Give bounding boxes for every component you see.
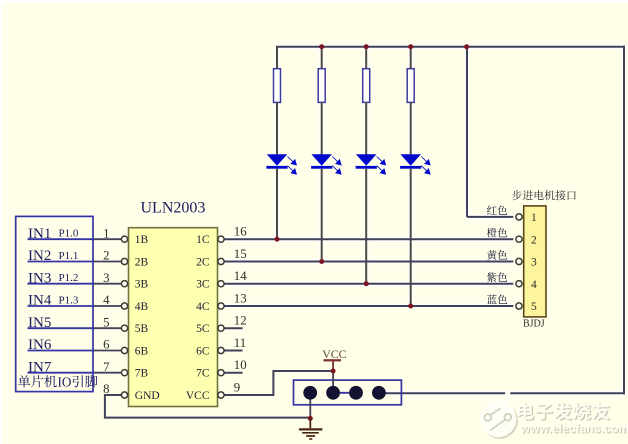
junction dot on row bbox=[319, 259, 324, 264]
svg-text:1C: 1C bbox=[196, 234, 210, 246]
svg-text:5B: 5B bbox=[135, 323, 149, 335]
junction dot ground node bbox=[308, 416, 313, 421]
pin circle right 6C bbox=[218, 347, 224, 353]
svg-text:IN3: IN3 bbox=[28, 270, 51, 286]
svg-text:13: 13 bbox=[234, 291, 247, 305]
pin circle left 4B bbox=[121, 303, 127, 309]
wire column 3 resistor to LED bbox=[365, 103, 367, 156]
svg-text:2B: 2B bbox=[135, 257, 149, 269]
svg-text:5C: 5C bbox=[196, 323, 210, 335]
junction dot on rail bbox=[319, 44, 324, 49]
svg-text:P1.2: P1.2 bbox=[59, 272, 79, 284]
wire VCC top rail bbox=[276, 46, 625, 48]
watermark 电子发烧友 bbox=[518, 402, 610, 420]
svg-text:ULN2003: ULN2003 bbox=[141, 200, 206, 217]
label 橙色 bbox=[487, 228, 507, 238]
svg-text:5: 5 bbox=[531, 301, 537, 313]
wire pin 8 to ground node bbox=[105, 395, 310, 418]
label 红色 bbox=[487, 205, 507, 215]
wire IN3 net bbox=[28, 283, 95, 285]
svg-text:5: 5 bbox=[103, 315, 109, 329]
svg-text:IN1: IN1 bbox=[28, 226, 51, 242]
wire IN5 net bbox=[28, 327, 95, 329]
resistor R3 bbox=[363, 69, 370, 103]
wire column 2 LED to row bbox=[321, 169, 323, 262]
svg-text:IN6: IN6 bbox=[28, 337, 52, 353]
wire red: rail to header pin 1 bbox=[466, 47, 468, 217]
svg-text:1: 1 bbox=[531, 212, 537, 224]
junction dot on row bbox=[408, 304, 413, 309]
svg-text:3: 3 bbox=[531, 257, 537, 269]
svg-text:10: 10 bbox=[234, 358, 247, 372]
svg-text:VCC: VCC bbox=[322, 347, 346, 361]
pin circle right 4C bbox=[218, 303, 224, 309]
svg-text:7B: 7B bbox=[135, 368, 149, 380]
wire stub pin 10 bbox=[224, 372, 242, 374]
connector J1 BJDJ body bbox=[524, 206, 546, 317]
wire IN2 net bbox=[28, 261, 95, 263]
resistor R2 bbox=[318, 69, 325, 103]
pin circle header 2 bbox=[516, 236, 522, 242]
pin circle right 1C bbox=[218, 236, 224, 242]
svg-text:VCC: VCC bbox=[186, 390, 210, 402]
LED D4 bbox=[400, 154, 431, 175]
wire column 4 LED to row bbox=[410, 169, 412, 306]
power header box bbox=[294, 380, 402, 405]
label 黄色 bbox=[487, 250, 507, 260]
pin circle left GND bbox=[121, 392, 127, 398]
pin circle right 5C bbox=[218, 325, 224, 331]
pin circle header 1 bbox=[516, 214, 522, 220]
svg-text:1B: 1B bbox=[135, 234, 149, 246]
svg-text:BJDJ: BJDJ bbox=[523, 319, 545, 330]
svg-text:IN7: IN7 bbox=[28, 359, 52, 375]
svg-text:1: 1 bbox=[103, 226, 109, 240]
LED D3 bbox=[356, 154, 387, 175]
resistor R1 bbox=[274, 69, 281, 103]
svg-text:P1.1: P1.1 bbox=[59, 250, 79, 262]
wire IN1 net bbox=[28, 238, 95, 240]
svg-text:4B: 4B bbox=[135, 301, 149, 313]
pin circle right 3C bbox=[218, 281, 224, 287]
svg-text:IN4: IN4 bbox=[28, 293, 52, 309]
pin circle left 3B bbox=[121, 281, 127, 287]
LED D2 bbox=[311, 154, 342, 175]
svg-text:IN5: IN5 bbox=[28, 315, 51, 331]
svg-text:12: 12 bbox=[234, 314, 247, 328]
svg-text:16: 16 bbox=[234, 225, 247, 239]
wire right-side VCC drop bbox=[623, 46, 625, 395]
svg-text:7C: 7C bbox=[196, 368, 210, 380]
wire column 1 resistor to LED bbox=[276, 103, 278, 156]
svg-text:11: 11 bbox=[234, 336, 246, 350]
wire IN7 net bbox=[28, 372, 95, 374]
junction dot on rail bbox=[364, 44, 369, 49]
svg-text:3C: 3C bbox=[196, 279, 210, 291]
pin circle left 6B bbox=[121, 347, 127, 353]
wire IC pin 14 to header pin 4 bbox=[224, 283, 513, 285]
wire bottom VCC run to header bbox=[379, 392, 625, 394]
wire IC pin 15 to header pin 3 bbox=[224, 261, 513, 263]
label 蓝色 bbox=[487, 295, 507, 305]
LED D1 bbox=[266, 154, 297, 175]
watermark 电子发烧友 shadow bbox=[519, 403, 611, 421]
svg-text:3B: 3B bbox=[135, 279, 149, 291]
op IC body U1 ULN2003 bbox=[129, 228, 218, 407]
pin circle header 3 bbox=[516, 258, 522, 264]
pin circle right 2C bbox=[218, 258, 224, 264]
wire column 3 LED to row bbox=[365, 169, 367, 284]
svg-text:14: 14 bbox=[234, 269, 247, 283]
pin circle left 2B bbox=[121, 258, 127, 264]
pin circle right VCC bbox=[218, 392, 224, 398]
svg-text:6: 6 bbox=[103, 338, 110, 352]
svg-text:2: 2 bbox=[103, 249, 109, 263]
junction dot on rail bbox=[408, 44, 413, 49]
svg-text:IO: IO bbox=[58, 374, 72, 389]
ground symbol bbox=[299, 418, 323, 439]
wire VCC node to pad2 bbox=[332, 371, 334, 393]
VCC power symbol bbox=[324, 359, 342, 361]
pin circle header 5 bbox=[516, 303, 522, 309]
svg-text:IN2: IN2 bbox=[28, 248, 51, 264]
wire IC pin 13 to header pin 5 bbox=[224, 305, 513, 307]
svg-text:GND: GND bbox=[135, 390, 160, 402]
wire pad1 to ground node bbox=[309, 393, 311, 419]
junction dot VCC node bbox=[331, 369, 336, 374]
wire IN6 net bbox=[28, 350, 95, 352]
svg-text:www.elecfans.com: www.elecfans.com bbox=[520, 422, 628, 436]
pad circle 2 bbox=[326, 386, 340, 400]
wire column 1 rail to resistor bbox=[276, 47, 278, 70]
label 单片机IO引脚 bbox=[18, 375, 57, 387]
wire IC pin 16 to header pin 2 bbox=[224, 238, 513, 240]
wire column 4 rail to resistor bbox=[410, 47, 412, 70]
wire column 4 resistor to LED bbox=[410, 103, 412, 156]
junction dot on rail bbox=[464, 44, 469, 49]
wire pin 9 to VCC node bbox=[224, 371, 332, 395]
svg-text:P1.0: P1.0 bbox=[59, 228, 79, 240]
wire column 2 resistor to LED bbox=[321, 103, 323, 156]
resistor R4 bbox=[407, 69, 414, 103]
watermark logo circle bbox=[480, 392, 518, 439]
pad circle 1 bbox=[303, 386, 317, 400]
pin circle left 1B bbox=[121, 236, 127, 242]
svg-text:2C: 2C bbox=[196, 257, 210, 269]
wire halos bbox=[224, 47, 624, 394]
pin circle right 7C bbox=[218, 370, 224, 376]
svg-text:2: 2 bbox=[531, 234, 537, 246]
svg-text:P1.3: P1.3 bbox=[59, 294, 79, 306]
svg-text:4C: 4C bbox=[196, 301, 210, 313]
svg-text:6B: 6B bbox=[135, 346, 149, 358]
svg-text:7: 7 bbox=[103, 360, 110, 374]
label 紫色 bbox=[487, 272, 507, 282]
pad circle 3 bbox=[349, 386, 363, 400]
wire stub pin 12 bbox=[224, 327, 242, 329]
wire stub pin 11 bbox=[224, 350, 242, 352]
pin circle left 7B bbox=[121, 370, 127, 376]
junction dot on row bbox=[275, 237, 280, 242]
svg-text:4: 4 bbox=[103, 293, 110, 307]
wire IN4 net bbox=[28, 305, 95, 307]
pin circle header 4 bbox=[516, 281, 522, 287]
svg-text:6C: 6C bbox=[196, 346, 210, 358]
pin circle left 5B bbox=[121, 325, 127, 331]
wire column 1 LED to row bbox=[276, 169, 278, 240]
MCU IO box bbox=[16, 216, 93, 391]
svg-text:9: 9 bbox=[234, 380, 240, 394]
wire pad2 to pad3 bbox=[333, 392, 356, 394]
pad circle 4 bbox=[372, 386, 386, 400]
svg-text:3: 3 bbox=[103, 271, 109, 285]
svg-text:8: 8 bbox=[103, 382, 109, 396]
svg-text:4: 4 bbox=[531, 279, 537, 291]
svg-text:15: 15 bbox=[234, 247, 247, 261]
junction dot on row bbox=[364, 281, 369, 286]
wire column 2 rail to resistor bbox=[321, 47, 323, 70]
wire column 3 rail to resistor bbox=[365, 47, 367, 70]
label 步进电机接口 bbox=[512, 190, 576, 200]
